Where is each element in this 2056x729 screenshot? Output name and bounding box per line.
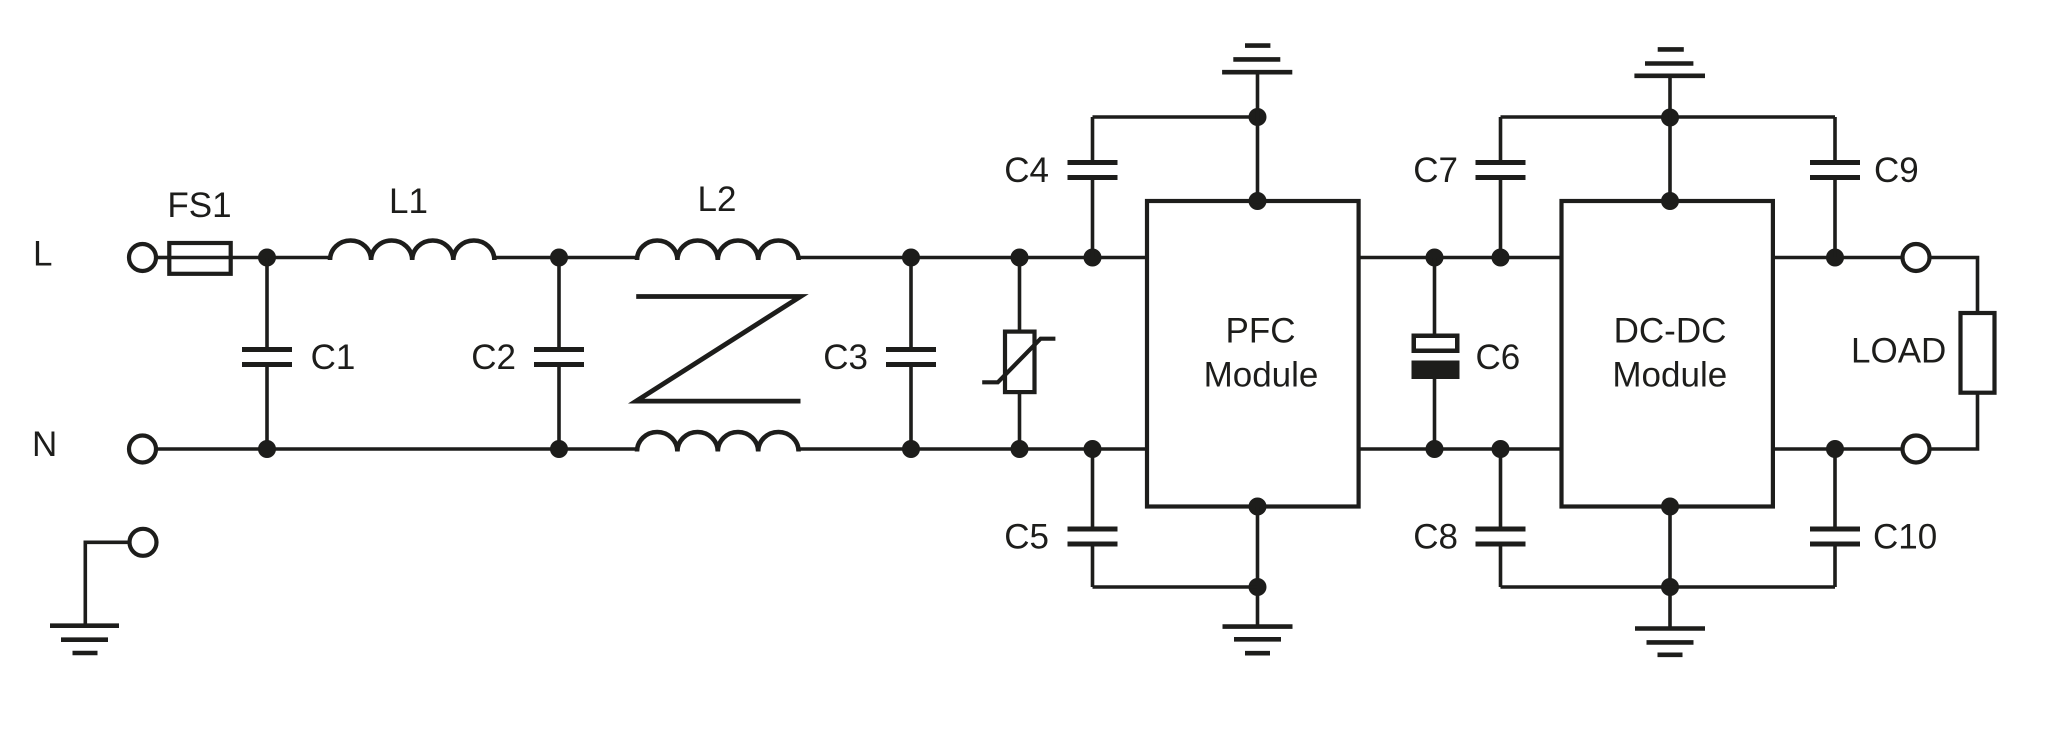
wire earth bus bottom left [1093, 585, 1258, 589]
capacitor C9 [1833, 117, 1837, 161]
node junction PFC module bottom [1249, 498, 1267, 516]
node junction C1 top [258, 249, 276, 267]
node junction PFC module top [1249, 192, 1267, 210]
ground earth symbol bottom left [50, 623, 119, 628]
node junction DC-DC module bottom [1661, 498, 1679, 516]
node junction earth bus top right [1661, 109, 1679, 127]
capacitor C6 electrolytic [1433, 258, 1437, 335]
wire earth to PFC module top [1256, 74, 1260, 201]
inductor L2 bottom winding [637, 432, 799, 452]
capacitor C7 [1499, 117, 1503, 161]
wire L terminal to fuse [157, 256, 170, 260]
PFC module box U1 [1147, 201, 1359, 507]
node junction C10 top [1826, 440, 1844, 458]
wire LOAD to output bottom [1930, 393, 1978, 449]
node junction C2 bottom [550, 440, 568, 458]
capacitor C2 [557, 258, 561, 348]
node output terminal bottom [1903, 436, 1930, 463]
node earth input terminal [130, 529, 157, 556]
capacitor C1 [265, 258, 269, 348]
svg-text:DC-DC: DC-DC [1614, 312, 1727, 351]
wire PFC to DC-DC (top) [1359, 256, 1562, 260]
node junction DC-DC module top [1661, 192, 1679, 210]
node output terminal top [1903, 244, 1930, 271]
capacitor C8 [1499, 449, 1503, 528]
node junction C3 bottom [902, 440, 920, 458]
inductor L2 top winding [637, 240, 799, 260]
svg-text:N: N [32, 425, 57, 464]
wire earth bus bottom right [1501, 585, 1836, 589]
wire earth terminal to ground [85, 542, 129, 625]
node junction C1 bottom [258, 440, 276, 458]
wire N line left segment [157, 447, 638, 451]
svg-text:C2: C2 [471, 338, 516, 377]
node junction varistor top [1011, 249, 1029, 267]
capacitor C10 [1833, 449, 1837, 528]
wire DC-DC to output terminal (bottom) [1773, 447, 1902, 451]
earth symbol below DC-DC module [1635, 626, 1705, 631]
earth symbol above DC-DC module [1658, 47, 1684, 52]
svg-text:LOAD: LOAD [1851, 332, 1946, 371]
svg-text:C5: C5 [1004, 518, 1049, 557]
wire L2 to PFC module (L line) [798, 256, 1147, 260]
svg-text:PFC: PFC [1226, 312, 1296, 351]
wire earth to DC-DC module top [1668, 78, 1672, 201]
node junction C4 bottom [1084, 249, 1102, 267]
resistor LOAD [1961, 313, 1995, 393]
svg-text:Module: Module [1612, 356, 1727, 395]
capacitor C5 [1091, 449, 1095, 528]
node junction C2 top [550, 249, 568, 267]
svg-text:C6: C6 [1476, 338, 1521, 377]
node junction C6 bottom [1426, 440, 1444, 458]
node junction C6 top [1426, 249, 1444, 267]
node junction earth bus bottom left [1249, 578, 1267, 596]
DC-DC module box U2 [1562, 201, 1773, 507]
inductor L1 [330, 240, 494, 260]
wire earth bus top left [1093, 115, 1258, 119]
wire DC-DC to output terminal (top) [1773, 256, 1902, 260]
svg-text:C4: C4 [1004, 151, 1049, 190]
svg-text:L2: L2 [698, 180, 737, 219]
wire PFC module bottom to earth [1256, 507, 1260, 627]
node L input terminal [129, 244, 156, 271]
wire output top to LOAD [1930, 258, 1978, 314]
svg-text:C8: C8 [1413, 518, 1458, 557]
varistor RV1 [1018, 258, 1022, 332]
node N input terminal [129, 436, 156, 463]
svg-text:C3: C3 [823, 338, 868, 377]
node junction C7 bottom [1492, 249, 1510, 267]
svg-text:Module: Module [1204, 356, 1319, 395]
svg-text:C9: C9 [1874, 151, 1919, 190]
node junction C3 top [902, 249, 920, 267]
earth symbol below PFC module [1223, 624, 1293, 629]
core mark Z of common-mode choke L2 [636, 297, 800, 402]
fuse FS1 [169, 243, 230, 274]
wire fuse to L1 [231, 256, 331, 260]
svg-text:L: L [33, 235, 52, 274]
node junction earth bus top left [1249, 108, 1267, 126]
node junction earth bus bottom right [1661, 578, 1679, 596]
wire DC-DC module bottom to earth [1668, 507, 1672, 629]
node junction C5 top [1084, 440, 1102, 458]
svg-text:C10: C10 [1873, 518, 1937, 557]
capacitor C3 [909, 258, 913, 348]
svg-text:FS1: FS1 [167, 186, 231, 225]
node junction C9 bottom [1826, 249, 1844, 267]
node junction C8 top [1492, 440, 1510, 458]
wire L1 to L2 [494, 256, 637, 260]
svg-text:C1: C1 [311, 338, 356, 377]
earth symbol above PFC module [1245, 43, 1270, 48]
wire N line L2 to PFC [798, 447, 1147, 451]
node junction varistor bottom [1011, 440, 1029, 458]
wire earth bus top right [1501, 115, 1836, 119]
svg-text:C7: C7 [1413, 151, 1458, 190]
wire PFC to DC-DC (bottom) [1359, 447, 1562, 451]
capacitor C4 [1091, 117, 1095, 161]
svg-text:L1: L1 [389, 182, 428, 221]
